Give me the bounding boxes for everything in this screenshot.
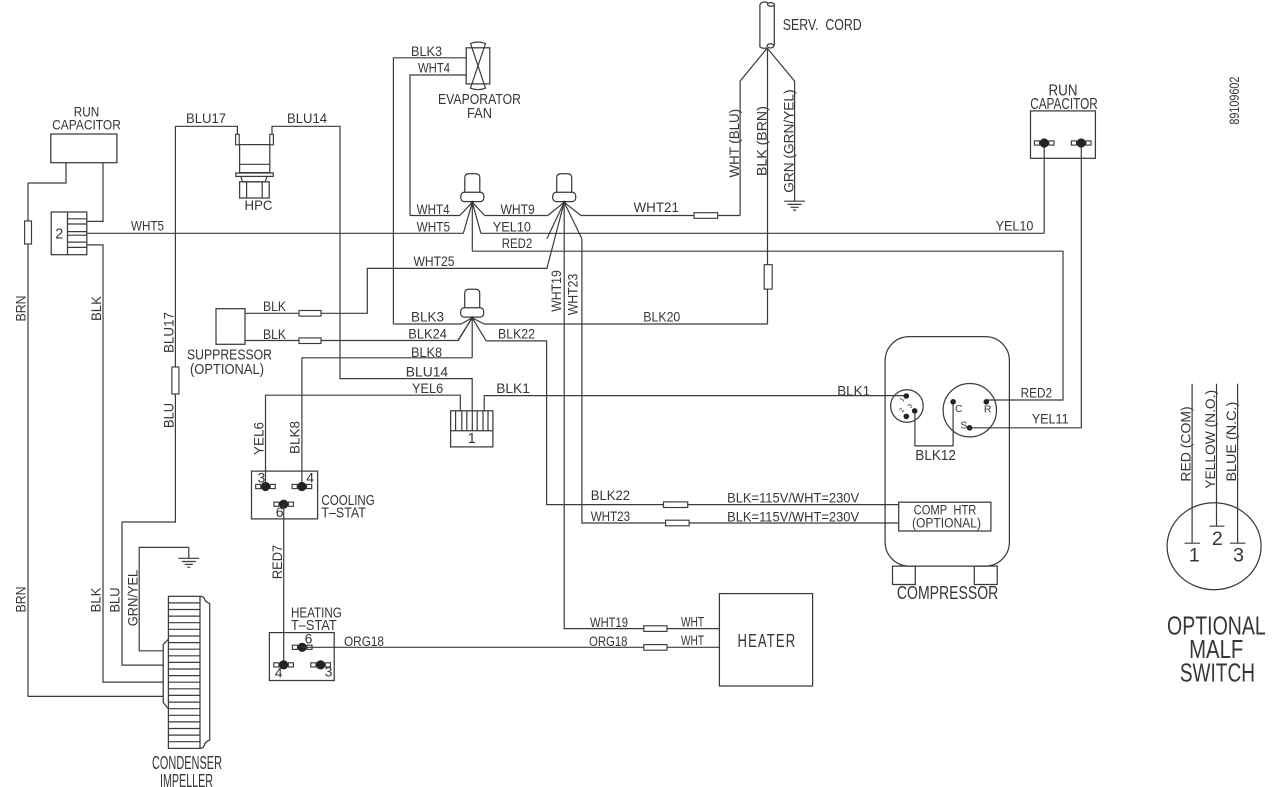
svg-text:GRN/YEL: GRN/YEL (125, 570, 141, 627)
svg-text:WHT21: WHT21 (634, 199, 680, 215)
svg-text:BLK: BLK (88, 587, 104, 613)
ground symbol (service cord) (784, 201, 805, 210)
svg-text:6: 6 (276, 504, 284, 520)
svg-text:3: 3 (258, 470, 266, 486)
svg-text:BLK (BRN): BLK (BRN) (753, 106, 769, 176)
heating t-stat pin 4 (274, 663, 279, 667)
svg-text:BLU: BLU (161, 403, 177, 428)
HPC body (240, 145, 270, 173)
wire BLK22 (486, 341, 899, 505)
suppressor body (216, 309, 245, 345)
svg-text:R: R (984, 404, 992, 416)
compressor foot left (893, 566, 916, 584)
compressor plug circle (891, 390, 924, 423)
svg-text:ORG18: ORG18 (344, 633, 384, 649)
svg-text:WHT: WHT (681, 613, 704, 629)
run capacitor (right) body (1031, 111, 1096, 158)
condenser impeller body (168, 596, 200, 748)
svg-text:89109602: 89109602 (1226, 76, 1242, 124)
wire BLU17 (122, 126, 237, 665)
svg-text:YEL6: YEL6 (412, 380, 443, 396)
svg-text:WHT9: WHT9 (501, 201, 535, 217)
svg-text:4: 4 (306, 469, 314, 485)
svg-text:BLU: BLU (107, 588, 123, 613)
svg-text:WHT19: WHT19 (548, 270, 564, 312)
svg-text:SWITCH: SWITCH (1180, 657, 1255, 687)
cooling t-stat pin 4 (292, 484, 297, 488)
wire run-cap left lead to BRN (28, 163, 66, 183)
fuse on WHT21 wire (694, 213, 718, 219)
HPC taper (241, 176, 268, 181)
fuse on suppressor top wire (299, 311, 321, 317)
svg-text:BLK3: BLK3 (411, 43, 442, 59)
svg-text:BLK: BLK (88, 295, 104, 321)
svg-text:RED2: RED2 (1021, 385, 1053, 401)
compressor terminal circle (943, 384, 996, 437)
svg-text:2: 2 (1212, 528, 1223, 550)
wire RED7 (283, 504, 285, 665)
svg-text:COMPRESSOR: COMPRESSOR (897, 583, 998, 603)
svg-text:BLU17: BLU17 (161, 312, 177, 353)
svg-text:BLK12: BLK12 (915, 447, 956, 464)
run capacitor pin right (1071, 141, 1076, 145)
evaporator fan body (466, 48, 490, 84)
sensor S3 fan-out wires (458, 318, 486, 358)
svg-text:BLK1: BLK1 (837, 383, 870, 399)
fuse on WHT23 wire (666, 520, 690, 526)
impeller left hub (163, 639, 168, 709)
svg-text:YEL10: YEL10 (493, 219, 531, 235)
impeller stripes (168, 603, 200, 742)
svg-text:1: 1 (468, 431, 476, 447)
malf switch wire 3 (1230, 384, 1246, 543)
connector 2 body (51, 212, 87, 255)
svg-text:(OPTIONAL): (OPTIONAL) (912, 516, 981, 531)
fuse on BLK22 wire (664, 502, 688, 508)
svg-text:GRN (GRN/YEL): GRN (GRN/YEL) (781, 89, 797, 192)
wire run-cap right lead to connector 2 (87, 163, 103, 222)
svg-text:BRN: BRN (12, 587, 28, 613)
run capacitor pin left (1034, 141, 1039, 145)
wire GRN (GRN/YEL) from service cord (767, 48, 794, 201)
wire WHT5 / YEL10 main horizontal (87, 232, 1044, 234)
wire GRN/YEL to ground (139, 547, 189, 650)
svg-text:WHT23: WHT23 (591, 508, 631, 524)
wire RED2 (472, 251, 1063, 400)
malf switch wire 2 (1209, 384, 1224, 526)
service cord cylinder (760, 2, 774, 48)
svg-text:BLK: BLK (263, 298, 287, 314)
svg-text:CONDENSER: CONDENSER (152, 753, 222, 773)
terminal S dot (967, 425, 973, 431)
wire ORG18 (302, 646, 719, 648)
svg-text:1: 1 (1189, 545, 1200, 567)
svg-text:C: C (955, 403, 963, 415)
svg-text:YEL11: YEL11 (1032, 411, 1069, 427)
fuse on BRN wire (25, 221, 32, 244)
connector 1 body (451, 411, 493, 447)
svg-text:3: 3 (1233, 545, 1244, 567)
svg-text:4: 4 (275, 664, 283, 680)
svg-text:RED2: RED2 (502, 235, 533, 251)
svg-text:YELLOW (N.O.): YELLOW (N.O.) (1202, 390, 1218, 489)
terminal R dot (984, 399, 990, 405)
compressor outline (885, 337, 1009, 566)
heater body (719, 594, 812, 686)
svg-text:BLK24: BLK24 (408, 326, 447, 342)
svg-text:YEL10: YEL10 (996, 218, 1034, 234)
wire WHT (BLU) from service cord (740, 48, 767, 215)
svg-text:YEL6: YEL6 (251, 422, 267, 455)
wire BLK3/BLK20 horizontal (393, 323, 767, 325)
svg-text:WHT23: WHT23 (565, 274, 581, 316)
fuse on suppressor bottom wire (299, 338, 321, 344)
fuse on BLK(BRN) wire (764, 265, 772, 289)
fuse on WHT19 wire (644, 626, 667, 632)
cooling t-stat pin 6 (274, 502, 279, 506)
HPC nut (240, 182, 270, 198)
connector 1 hatch lines (456, 411, 488, 431)
run capacitor (left) body (51, 134, 117, 163)
wire YEL6 (266, 395, 461, 486)
svg-text:BRN: BRN (12, 296, 28, 322)
svg-text:WHT5: WHT5 (417, 219, 451, 235)
svg-text:WHT (BLU): WHT (BLU) (726, 109, 742, 178)
cooling t-stat pin 3 (256, 484, 261, 488)
svg-text:BLK: BLK (263, 326, 287, 342)
heating t-stat pin 3 (311, 663, 316, 667)
svg-text:S: S (960, 419, 967, 431)
svg-text:T–STAT: T–STAT (321, 506, 366, 522)
wire BLK suppressor bottom / BLK24 (245, 318, 472, 341)
svg-text:HEATER: HEATER (738, 631, 797, 651)
svg-text:BLK8: BLK8 (411, 344, 442, 360)
svg-text:(OPTIONAL): (OPTIONAL) (190, 362, 264, 378)
wire BLK suppressor top / WHT25 (245, 202, 564, 313)
svg-text:3: 3 (325, 663, 333, 679)
svg-text:BLK20: BLK20 (643, 309, 680, 325)
evaporator fan bowtie symbol (471, 42, 486, 90)
thermistor sensor S3 (465, 289, 480, 308)
svg-text:SERV. CORD: SERV. CORD (783, 17, 862, 34)
thermistor sensor S2 (557, 174, 572, 193)
wire YEL11 (970, 147, 1082, 428)
svg-text:ORG18: ORG18 (589, 633, 628, 649)
wire WHT19 (564, 202, 719, 628)
svg-text:BLU14: BLU14 (406, 364, 449, 380)
wire BLK8 (302, 358, 472, 487)
wire WHT4/WHT9/WHT21 horizontal (410, 215, 740, 217)
svg-text:BLK8: BLK8 (287, 421, 303, 454)
terminal C dot (950, 399, 956, 405)
svg-text:RED7: RED7 (269, 545, 285, 579)
malf switch circle (1167, 503, 1261, 590)
svg-text:BLUE (N.C.): BLUE (N.C.) (1223, 402, 1239, 482)
svg-text:BLU14: BLU14 (287, 110, 327, 126)
wire BLK (BRN) from service cord (767, 48, 769, 324)
wire BLK3 from fan (393, 58, 466, 324)
svg-text:IMPELLER: IMPELLER (160, 771, 213, 787)
compressor foot right (974, 566, 997, 584)
cooling t-stat body (252, 471, 318, 519)
svg-text:T–STAT: T–STAT (291, 618, 337, 634)
svg-text:BLK3: BLK3 (411, 309, 444, 325)
wire BRN (28, 183, 164, 696)
svg-text:BLK22: BLK22 (498, 326, 535, 342)
heating t-stat pin 6 (292, 645, 297, 649)
fuse on ORG18 wire (644, 645, 667, 651)
svg-text:BLK=115V/WHT=230V: BLK=115V/WHT=230V (727, 509, 860, 525)
svg-text:BLK22: BLK22 (591, 487, 631, 503)
svg-text:CAPACITOR: CAPACITOR (52, 117, 121, 133)
HPC terminal pins (236, 135, 273, 145)
comp htr body (899, 502, 991, 531)
plug pin dots (904, 393, 910, 399)
wire BLK12 (915, 404, 953, 446)
svg-text:BLK=115V/WHT=230V: BLK=115V/WHT=230V (727, 490, 860, 506)
thermistor sensor S1 (465, 174, 480, 193)
wire BLK1 (484, 396, 906, 411)
svg-text:WHT4: WHT4 (417, 201, 450, 217)
wire YEL10 riser to run capacitor (1043, 147, 1045, 233)
svg-text:WHT: WHT (681, 632, 704, 648)
sensor S2 fan-out wires (547, 202, 582, 238)
svg-text:BLK1: BLK1 (496, 380, 530, 396)
svg-text:BLU17: BLU17 (186, 110, 226, 126)
svg-text:WHT19: WHT19 (590, 614, 628, 630)
connector 2 hatch lines (68, 219, 87, 248)
ground symbol (left) (188, 547, 190, 558)
wire BLU14 from HPC (272, 126, 472, 411)
svg-text:2: 2 (55, 227, 63, 243)
svg-text:HPC: HPC (245, 197, 273, 213)
malf switch wire 1 (1185, 384, 1201, 543)
wire BLK from connector 2 (87, 245, 164, 682)
heating t-stat body (269, 633, 334, 681)
wire WHT4 from fan (410, 75, 466, 216)
svg-text:RED (COM): RED (COM) (1178, 406, 1194, 481)
svg-text:FAN: FAN (467, 106, 492, 122)
svg-text:WHT25: WHT25 (414, 253, 455, 269)
svg-text:WHT4: WHT4 (418, 60, 450, 76)
sensor S1 fan-out wires (460, 202, 485, 251)
HPC flange (236, 173, 273, 176)
wire WHT23 (582, 239, 899, 523)
impeller right flange (200, 596, 210, 748)
fuse on BLU17 wire (172, 367, 179, 394)
svg-text:WHT5: WHT5 (131, 218, 164, 234)
